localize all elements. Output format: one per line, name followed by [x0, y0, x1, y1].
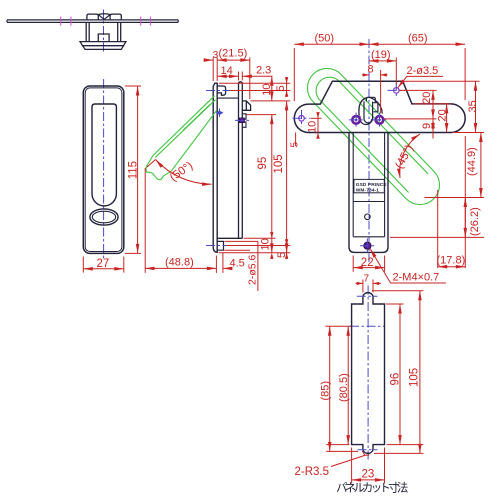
- dim 105 pc line: [419, 291, 421, 454]
- dim 8 arrows: [363, 73, 387, 76]
- dim 27 ext left: [82, 257, 84, 273]
- angle 50 arc: [156, 160, 212, 185]
- dim 115 line: [137, 86, 139, 253]
- panel cut outline: [352, 293, 385, 454]
- angle 50 ext: [147, 160, 156, 168]
- body rear wall side: [239, 82, 243, 239]
- ext hole tr: [395, 58, 397, 85]
- svg-text:10: 10: [261, 84, 273, 96]
- cam tongue: [364, 101, 373, 123]
- svg-text:4.5: 4.5: [230, 258, 245, 270]
- hole centerline top: [206, 90, 230, 92]
- svg-text:(26.2): (26.2): [469, 207, 481, 236]
- label 2-R3.5 leader: [331, 451, 370, 467]
- ext handle tip: [144, 168, 146, 273]
- handle lever open second edge: [155, 100, 215, 158]
- handle 45 outer: [307, 68, 439, 204]
- ext foot lower: [225, 249, 251, 251]
- screw right cross: [372, 113, 387, 128]
- dim 5 bottom line: [286, 241, 288, 259]
- svg-text:(19): (19): [371, 49, 391, 61]
- dim 21.5 line: [217, 59, 250, 61]
- handle plate inner edge: [85, 88, 122, 252]
- dim 14 line: [217, 75, 238, 77]
- top hook side: [217, 86, 225, 95]
- handle recess: [92, 104, 116, 206]
- dim 5 top line: [286, 77, 288, 97]
- cam bottom hook: [360, 116, 372, 125]
- section marker diamond: [216, 111, 224, 115]
- svg-text:(80.5): (80.5): [338, 373, 350, 402]
- svg-text:(85): (85): [320, 381, 332, 401]
- svg-text:(50): (50): [315, 33, 335, 45]
- svg-text:35: 35: [467, 100, 479, 112]
- dim 44.9 line: [480, 133, 482, 198]
- handle grip hook: [146, 156, 171, 180]
- ext hole level right: [400, 89, 437, 91]
- dim 50 ext left: [293, 48, 295, 101]
- svg-text:2-R3.5: 2-R3.5: [295, 466, 330, 478]
- dim 65 ext right: [464, 48, 466, 100]
- dim 9 tail: [432, 133, 434, 139]
- screw left dot: [355, 119, 357, 121]
- dim 115 ext top: [125, 85, 141, 87]
- panel cut datum blue: [350, 325, 385, 327]
- mounting bar plan: [7, 20, 178, 23]
- centerline front view: [103, 79, 105, 260]
- svg-text:9: 9: [421, 123, 433, 129]
- stem rear: [349, 133, 388, 253]
- cam screw centerline: [235, 119, 250, 121]
- panel cut centerline: [367, 286, 369, 461]
- svg-text:27: 27: [97, 258, 110, 270]
- ext phi56 leader: [225, 241, 258, 291]
- svg-text:(44.9): (44.9): [466, 147, 478, 176]
- handle 45 inner: [316, 77, 428, 192]
- dim 80.5 line: [347, 326, 349, 444]
- dim 7 arrows: [357, 282, 380, 285]
- svg-text:10: 10: [307, 121, 319, 133]
- svg-text:23: 23: [362, 469, 375, 481]
- stem inner lines: [353, 133, 384, 237]
- svg-text:20: 20: [437, 109, 449, 121]
- svg-text:115: 115: [128, 161, 140, 179]
- foot flange side: [217, 241, 223, 250]
- dim 50 line: [294, 43, 369, 45]
- latch body plan: [86, 22, 121, 41]
- section marker line: [219, 109, 221, 118]
- dim 27 line: [83, 268, 124, 270]
- dim 3 line: [204, 59, 214, 61]
- cam screw side lower: [242, 122, 246, 127]
- dim 95 line: [271, 115, 273, 253]
- dim 23 ext: [352, 448, 385, 484]
- ext body bottom right: [244, 237, 276, 239]
- ext plate top right: [219, 82, 290, 84]
- svg-text:WM-734-1: WM-734-1: [356, 187, 379, 193]
- angle 45 arc: [400, 134, 420, 178]
- dim 20 upper line: [432, 90, 434, 119]
- catch hook side: [242, 101, 250, 110]
- svg-text:2-ø3.5: 2-ø3.5: [407, 65, 439, 77]
- stem notch plan: [98, 34, 109, 42]
- cam vee plan: [98, 14, 111, 20]
- right lug plan: [110, 14, 121, 20]
- SIDE VIEW GROUP: [145, 48, 290, 291]
- ext hole bottom right: [226, 245, 290, 247]
- m4 screw cross: [360, 238, 375, 253]
- body bottom edge side: [217, 237, 242, 239]
- flange plan: [80, 42, 126, 50]
- dim 10 top line: [271, 76, 273, 101]
- FRONT VIEW GROUP: [83, 79, 141, 273]
- svg-text:95: 95: [257, 157, 269, 170]
- ext screwline right: [384, 118, 437, 120]
- svg-text:5: 5: [276, 252, 288, 258]
- plate side profile: [213, 83, 217, 252]
- svg-text:7: 7: [364, 274, 370, 285]
- dim 2.3 line: [242, 75, 272, 77]
- dim 48.8 line: [145, 267, 216, 269]
- handle lever inner line: [183, 105, 210, 131]
- dim 5 bottom arrows: [285, 239, 288, 259]
- TOP VIEW GROUP: [7, 10, 178, 53]
- left lug plan: [87, 14, 98, 20]
- svg-text:5: 5: [275, 85, 287, 91]
- svg-text:2-M4×0.7: 2-M4×0.7: [393, 272, 440, 284]
- centerline rear view: [368, 39, 370, 262]
- ext tip level: [425, 197, 485, 199]
- ext cap vertical: [464, 136, 466, 268]
- ext slot bottom right: [387, 444, 424, 446]
- dim 3 ext lines: [213, 58, 250, 100]
- dim 115 ext bottom: [125, 252, 141, 254]
- dim 8 line: [362, 74, 388, 76]
- svg-text:2-ø5.6: 2-ø5.6: [247, 254, 259, 285]
- hole top right crosshair: [388, 82, 406, 99]
- svg-text:2.3: 2.3: [256, 65, 271, 77]
- cam screw side upper: [242, 114, 246, 119]
- svg-text:(48.8): (48.8): [165, 257, 194, 269]
- dim 4.5 line: [223, 267, 230, 269]
- ext stem level: [390, 236, 484, 238]
- dim 22 line: [353, 267, 384, 269]
- dim 26.2 line: [464, 198, 466, 238]
- dim 23 line: [352, 479, 385, 481]
- dim 10 rear line: [317, 113, 319, 139]
- tab arc centerline top: [357, 295, 378, 297]
- tab arc centerline bottom: [358, 449, 378, 451]
- ext hole top right: [230, 90, 290, 92]
- break tick 4: [149, 17, 151, 26]
- dim 9 line: [432, 119, 434, 133]
- dim 5 top arrows: [285, 77, 288, 97]
- cam screw purple: [239, 118, 244, 123]
- dim 7 ext: [363, 280, 373, 293]
- dim 19 line: [369, 60, 396, 62]
- REAR VIEW GROUP: [290, 33, 485, 284]
- svg-text:5: 5: [290, 142, 301, 148]
- dim 20 lower line: [446, 104, 448, 133]
- hole top right: [394, 88, 400, 94]
- dim 22 ext: [353, 256, 384, 272]
- screw right dot: [378, 119, 380, 121]
- dim 14 ext lines: [239, 72, 243, 81]
- maker label box: [354, 179, 384, 192]
- dim 7 line: [356, 282, 382, 284]
- m4 screw: [364, 242, 371, 249]
- centerline top view: [103, 10, 105, 53]
- hole centerline bottom: [206, 245, 226, 247]
- ext tab bottom right: [374, 452, 423, 454]
- break tick 3: [140, 17, 142, 26]
- ext plate back bottom: [215, 256, 217, 273]
- dim 10 rear arrows: [316, 112, 319, 139]
- ext screw r: [380, 70, 382, 114]
- dim 10 rear ext: [311, 117, 322, 119]
- hole left crosshair: [293, 110, 311, 127]
- break tick 1: [60, 17, 62, 26]
- dim 10 bottom arrows: [270, 232, 273, 259]
- ext tip vertical: [437, 190, 439, 268]
- svg-text:105: 105: [273, 154, 285, 173]
- thumb hole inner: [92, 211, 115, 223]
- dim 85 line: [329, 326, 331, 451]
- handle lever open low edge: [171, 110, 217, 171]
- screw left ring: [352, 116, 360, 124]
- svg-text:96: 96: [390, 373, 402, 386]
- dim 5 rear line: [295, 133, 297, 147]
- handle plate outer: [83, 86, 124, 253]
- handle lever open top edge: [153, 96, 215, 156]
- datum ext red: [326, 325, 352, 327]
- svg-text:パネルカット寸法: パネルカット寸法: [336, 481, 408, 495]
- dim 27 ext right: [123, 257, 125, 273]
- ext slot bottom left: [326, 444, 349, 446]
- cam drive tab: [366, 97, 378, 112]
- dim 65 line: [369, 43, 465, 45]
- svg-text:20: 20: [421, 92, 433, 104]
- dim 105 line: [286, 101, 288, 253]
- svg-text:22: 22: [361, 257, 374, 269]
- svg-text:105: 105: [409, 368, 421, 387]
- label 2-phi3.5 leader: [398, 76, 443, 88]
- ext catch top right: [251, 100, 291, 102]
- thumb hole outer: [90, 209, 118, 225]
- ext slot top right: [386, 303, 404, 305]
- stem circle: [365, 214, 371, 220]
- svg-text:GSD PRINCE: GSD PRINCE: [356, 182, 388, 188]
- svg-text:10: 10: [259, 238, 271, 250]
- label m4 leader: [370, 249, 446, 284]
- body top edge side: [217, 97, 238, 99]
- ext pivot right: [247, 114, 277, 116]
- PANEL CUT GROUP: [295, 274, 424, 495]
- screw left cross: [349, 113, 364, 128]
- hole left: [299, 116, 305, 122]
- cam outer bell: [359, 97, 382, 115]
- ext tab bottom left: [326, 450, 358, 452]
- svg-text:(65): (65): [408, 33, 428, 45]
- ext tab top right: [372, 290, 423, 292]
- svg-text:(21.5): (21.5): [219, 48, 248, 60]
- mounting bar rear: [294, 81, 465, 132]
- dim 35 line: [475, 81, 477, 132]
- ext cap top right: [414, 103, 451, 105]
- break tick 2: [70, 17, 72, 26]
- ext bar bottom far: [452, 132, 484, 134]
- ext foot bottom: [222, 253, 224, 273]
- screw right ring: [376, 116, 384, 124]
- dim 17.8 line: [438, 266, 466, 268]
- ext top right far: [405, 80, 480, 82]
- dim 96 line: [399, 304, 401, 445]
- svg-text:8: 8: [368, 64, 374, 76]
- ext plate bottom right: [219, 252, 291, 254]
- svg-text:14: 14: [221, 65, 233, 77]
- svg-text:(17.8): (17.8): [437, 255, 466, 267]
